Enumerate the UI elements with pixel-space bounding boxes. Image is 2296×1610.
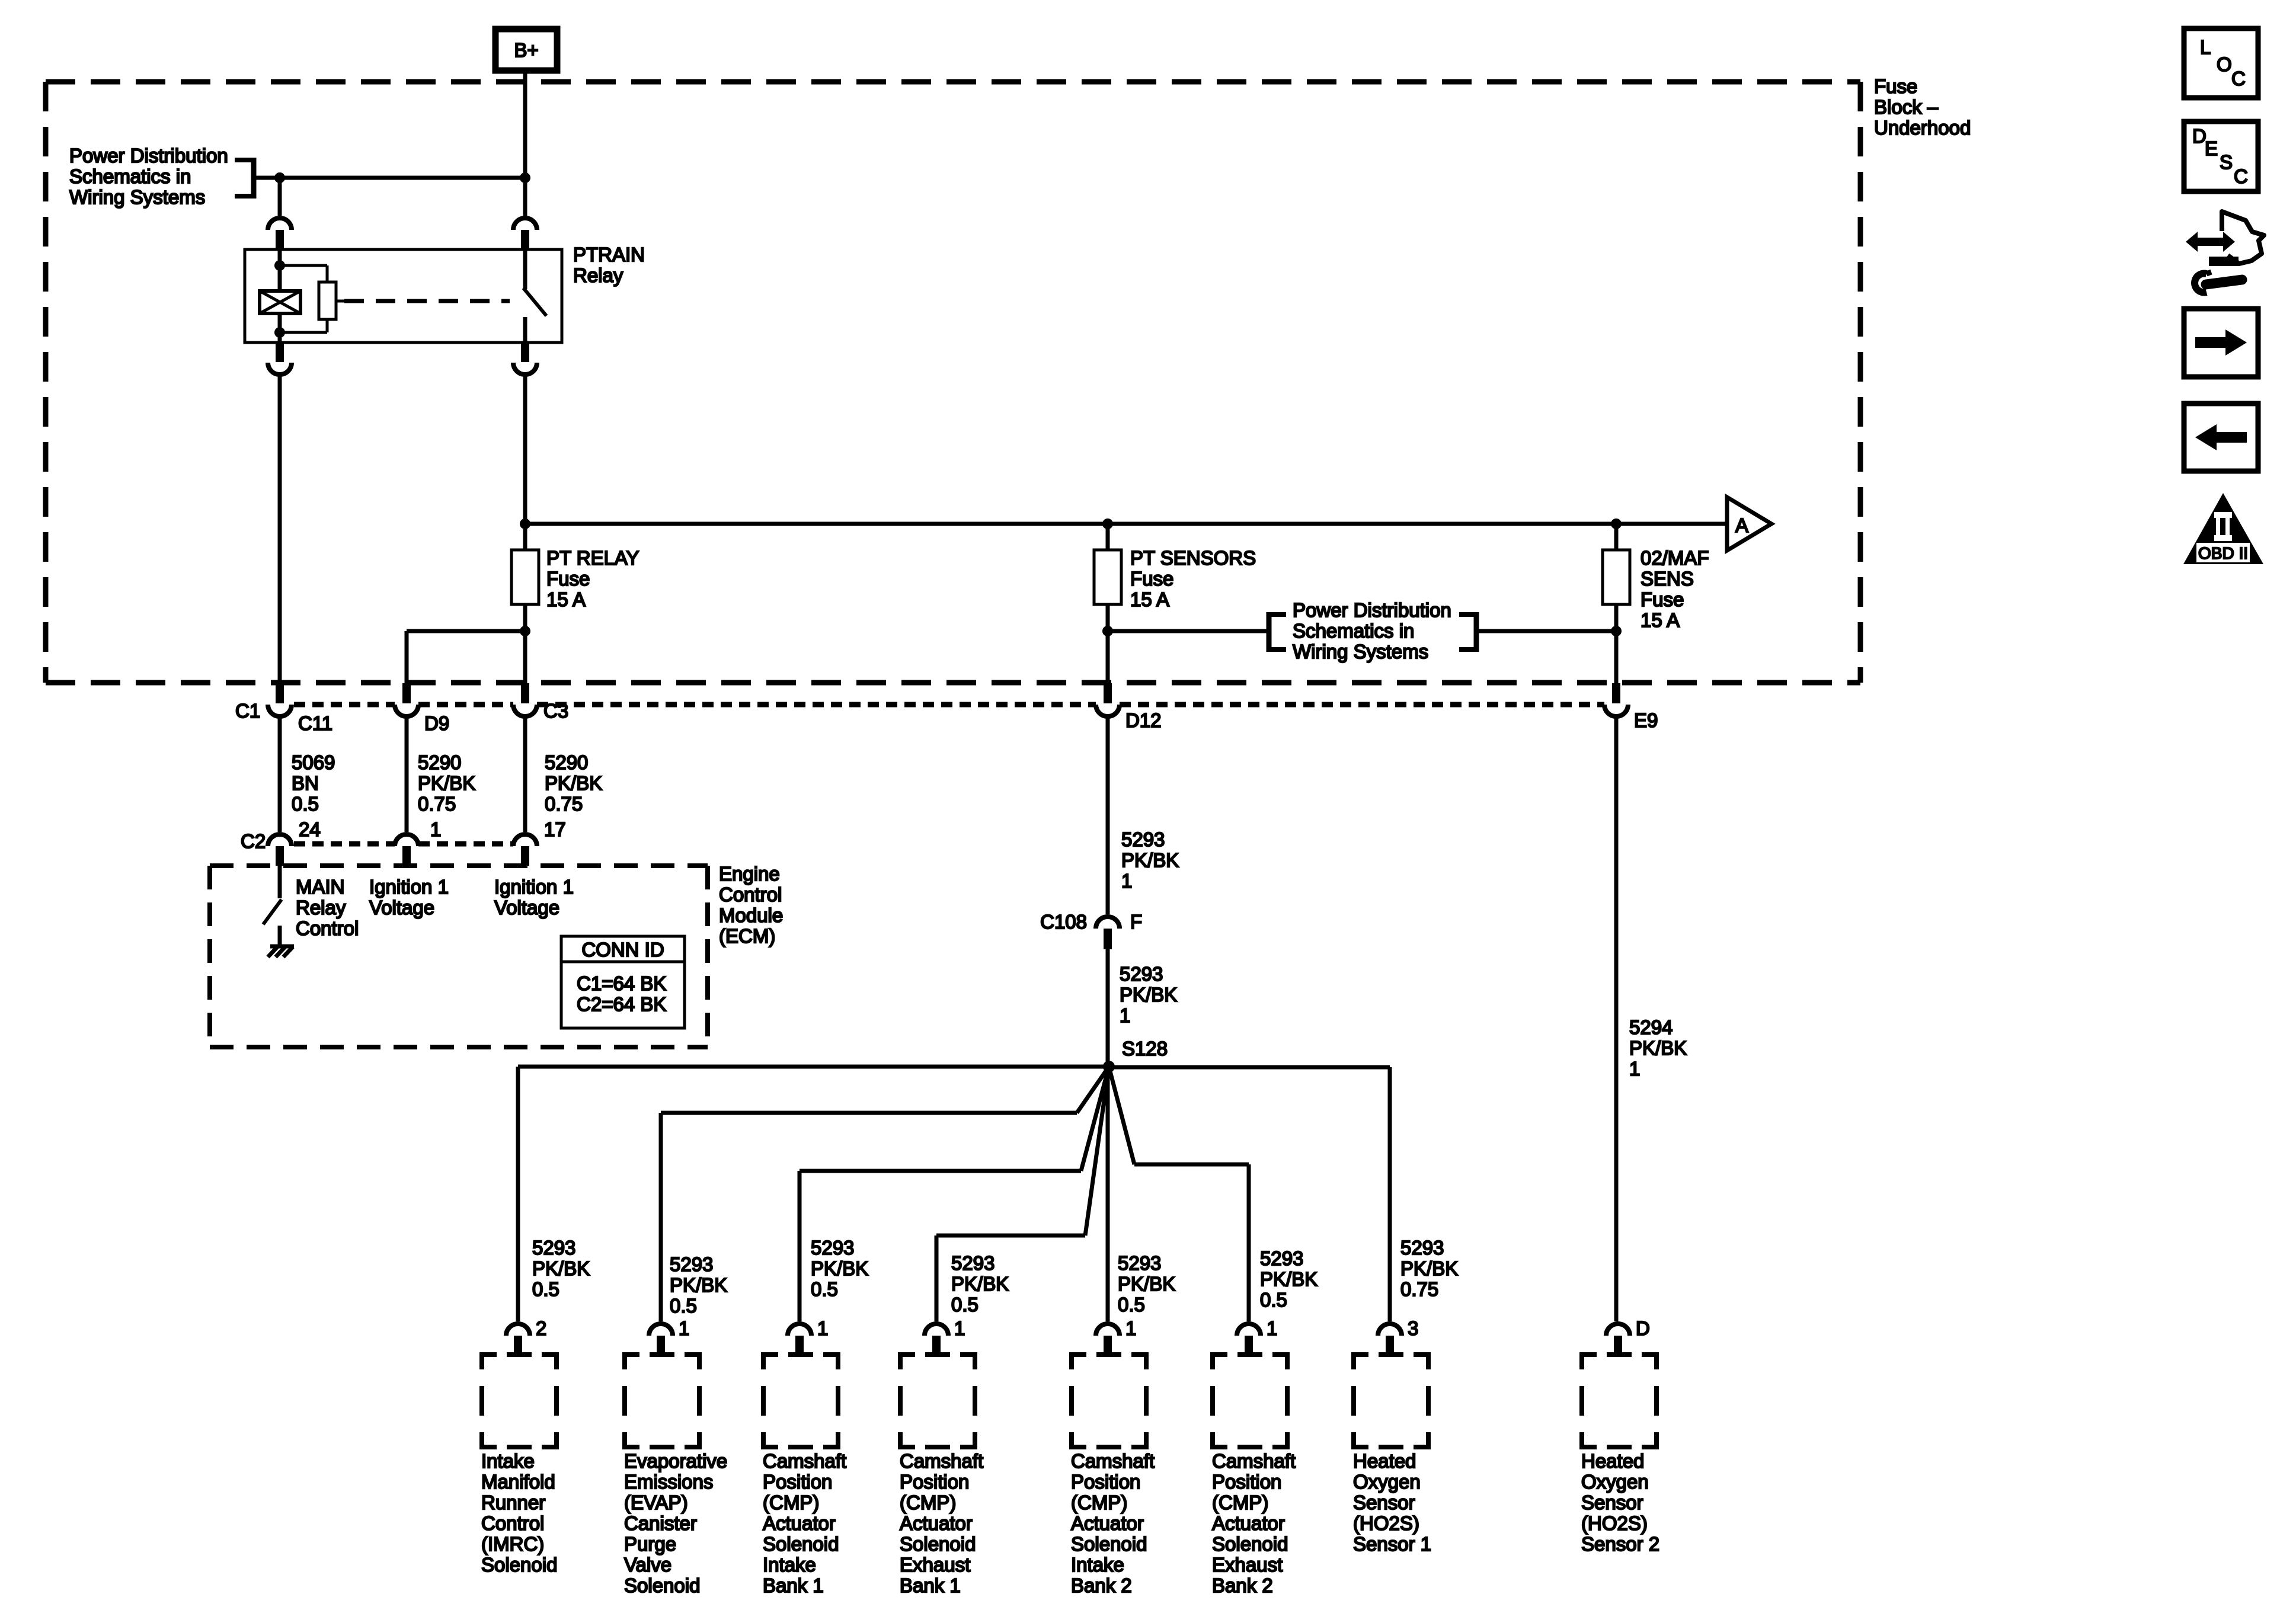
svg-text:PK/BK: PK/BK — [1121, 849, 1179, 871]
svg-text:Actuator: Actuator — [763, 1512, 836, 1534]
svg-text:MAIN: MAIN — [296, 876, 345, 898]
svg-text:Solenoid: Solenoid — [1212, 1533, 1288, 1555]
svg-text:Intake: Intake — [763, 1554, 816, 1576]
svg-text:0.5: 0.5 — [951, 1294, 978, 1315]
svg-text:PK/BK: PK/BK — [670, 1274, 727, 1296]
svg-text:PK/BK: PK/BK — [532, 1257, 590, 1279]
svg-text:0.5: 0.5 — [292, 793, 319, 815]
svg-text:PK/BK: PK/BK — [1118, 1273, 1175, 1295]
svg-text:5293: 5293 — [1260, 1247, 1303, 1269]
svg-text:1: 1 — [679, 1317, 689, 1339]
svg-text:(CMP): (CMP) — [900, 1491, 956, 1513]
svg-text:1: 1 — [817, 1317, 828, 1339]
svg-text:Evaporative: Evaporative — [624, 1450, 727, 1472]
svg-text:D12: D12 — [1125, 709, 1162, 731]
svg-text:PK/BK: PK/BK — [1260, 1268, 1318, 1290]
svg-text:CONN ID: CONN ID — [581, 939, 664, 961]
svg-text:Camshaft: Camshaft — [763, 1450, 846, 1472]
svg-text:5293: 5293 — [811, 1237, 854, 1259]
svg-text:5293: 5293 — [532, 1237, 575, 1259]
svg-text:PT SENSORS: PT SENSORS — [1130, 547, 1256, 569]
svg-text:Purge: Purge — [624, 1533, 676, 1555]
svg-text:0.75: 0.75 — [418, 793, 456, 815]
svg-text:02/MAF: 02/MAF — [1641, 547, 1709, 569]
svg-text:Ignition 1: Ignition 1 — [369, 876, 449, 898]
svg-text:Camshaft: Camshaft — [900, 1450, 983, 1472]
svg-text:PTRAIN: PTRAIN — [573, 244, 645, 265]
svg-text:Manifold: Manifold — [481, 1471, 555, 1493]
svg-text:3: 3 — [1408, 1317, 1418, 1339]
svg-text:Control: Control — [481, 1512, 544, 1534]
svg-text:5293: 5293 — [1120, 963, 1163, 985]
svg-text:E: E — [2205, 137, 2218, 159]
svg-text:C11: C11 — [298, 712, 332, 734]
svg-text:Bank 1: Bank 1 — [763, 1574, 824, 1596]
svg-text:Heated: Heated — [1353, 1450, 1416, 1472]
svg-text:5293: 5293 — [1400, 1237, 1444, 1259]
svg-text:PK/BK: PK/BK — [418, 772, 475, 794]
svg-text:Sensor 1: Sensor 1 — [1353, 1533, 1431, 1555]
svg-text:(CMP): (CMP) — [763, 1491, 819, 1513]
svg-text:Schematics in: Schematics in — [1293, 620, 1414, 642]
svg-text:(HO2S): (HO2S) — [1581, 1512, 1648, 1534]
svg-text:Solenoid: Solenoid — [624, 1574, 700, 1596]
svg-text:0.75: 0.75 — [545, 793, 583, 815]
svg-text:C2=64 BK: C2=64 BK — [577, 993, 666, 1015]
svg-text:Solenoid: Solenoid — [900, 1533, 976, 1555]
svg-text:Module: Module — [719, 904, 783, 926]
svg-text:C1=64 BK: C1=64 BK — [577, 972, 666, 994]
svg-text:1: 1 — [430, 818, 441, 840]
svg-text:Power Distribution: Power Distribution — [1293, 599, 1451, 621]
svg-text:Voltage: Voltage — [494, 897, 559, 918]
svg-text:1: 1 — [1120, 1004, 1130, 1026]
svg-text:Oxygen: Oxygen — [1581, 1471, 1649, 1493]
svg-text:15 A: 15 A — [1641, 609, 1680, 631]
svg-text:S: S — [2220, 151, 2233, 173]
svg-text:Relay: Relay — [573, 264, 623, 286]
svg-text:Fuse: Fuse — [1130, 568, 1173, 590]
svg-text:Solenoid: Solenoid — [763, 1533, 839, 1555]
svg-text:Fuse: Fuse — [1641, 588, 1684, 610]
svg-text:2: 2 — [536, 1317, 546, 1339]
svg-text:Camshaft: Camshaft — [1071, 1450, 1155, 1472]
svg-text:PK/BK: PK/BK — [1400, 1257, 1458, 1279]
svg-text:Control: Control — [719, 884, 782, 905]
svg-text:5290: 5290 — [545, 751, 588, 773]
svg-text:Ignition 1: Ignition 1 — [494, 876, 574, 898]
svg-text:D: D — [1636, 1317, 1650, 1339]
svg-text:OBD II: OBD II — [2198, 544, 2248, 562]
svg-text:Actuator: Actuator — [1212, 1512, 1285, 1534]
svg-text:O: O — [2217, 53, 2232, 75]
svg-text:Camshaft: Camshaft — [1212, 1450, 1296, 1472]
svg-text:1: 1 — [1125, 1317, 1136, 1339]
svg-text:17: 17 — [544, 818, 566, 840]
svg-text:Underhood: Underhood — [1874, 117, 1971, 139]
svg-text:Intake: Intake — [481, 1450, 535, 1472]
svg-text:Position: Position — [1212, 1471, 1281, 1493]
svg-text:Control: Control — [296, 917, 359, 939]
svg-text:0.5: 0.5 — [532, 1278, 559, 1300]
svg-text:0.5: 0.5 — [1260, 1289, 1287, 1311]
svg-text:Bank 2: Bank 2 — [1071, 1574, 1132, 1596]
svg-text:Emissions: Emissions — [624, 1471, 713, 1493]
svg-text:Power Distribution: Power Distribution — [69, 145, 228, 167]
svg-text:BN: BN — [292, 772, 319, 794]
svg-text:(CMP): (CMP) — [1071, 1491, 1127, 1513]
svg-text:Schematics in: Schematics in — [69, 165, 191, 187]
svg-text:Sensor 2: Sensor 2 — [1581, 1533, 1659, 1555]
svg-text:(EVAP): (EVAP) — [624, 1491, 688, 1513]
svg-text:Block –: Block – — [1874, 96, 1939, 118]
svg-text:0.5: 0.5 — [811, 1278, 838, 1300]
svg-text:1: 1 — [1121, 870, 1132, 892]
svg-text:Intake: Intake — [1071, 1554, 1124, 1576]
svg-text:Oxygen: Oxygen — [1353, 1471, 1421, 1493]
svg-text:Solenoid: Solenoid — [1071, 1533, 1147, 1555]
svg-text:Exhaust: Exhaust — [900, 1554, 970, 1576]
svg-text:PK/BK: PK/BK — [811, 1257, 868, 1279]
svg-text:PK/BK: PK/BK — [545, 772, 602, 794]
svg-text:5293: 5293 — [951, 1252, 994, 1274]
svg-text:Actuator: Actuator — [900, 1512, 973, 1534]
svg-text:Position: Position — [1071, 1471, 1140, 1493]
svg-text:Heated: Heated — [1581, 1450, 1644, 1472]
svg-text:0.5: 0.5 — [1118, 1294, 1145, 1315]
svg-text:Fuse: Fuse — [546, 568, 590, 590]
svg-text:1: 1 — [1267, 1317, 1277, 1339]
svg-text:Wiring Systems: Wiring Systems — [69, 186, 205, 208]
svg-text:Position: Position — [900, 1471, 969, 1493]
svg-text:5069: 5069 — [292, 751, 335, 773]
svg-text:Sensor: Sensor — [1353, 1491, 1415, 1513]
svg-text:(IMRC): (IMRC) — [481, 1533, 544, 1555]
svg-text:F: F — [1130, 911, 1142, 933]
svg-text:Voltage: Voltage — [369, 897, 434, 918]
svg-text:PK/BK: PK/BK — [1629, 1037, 1687, 1059]
svg-text:Actuator: Actuator — [1071, 1512, 1144, 1534]
svg-text:Runner: Runner — [481, 1491, 545, 1513]
svg-text:(CMP): (CMP) — [1212, 1491, 1268, 1513]
svg-text:PK/BK: PK/BK — [1120, 984, 1177, 1006]
svg-text:L: L — [2200, 36, 2211, 58]
svg-text:15 A: 15 A — [1130, 588, 1169, 610]
svg-text:C: C — [2231, 68, 2246, 89]
svg-text:(HO2S): (HO2S) — [1353, 1512, 1419, 1534]
svg-text:15 A: 15 A — [546, 588, 586, 610]
svg-text:C1: C1 — [235, 700, 260, 722]
svg-text:Bank 2: Bank 2 — [1212, 1574, 1273, 1596]
svg-text:Wiring Systems: Wiring Systems — [1293, 641, 1428, 662]
svg-text:C108: C108 — [1040, 911, 1087, 933]
svg-text:C2: C2 — [241, 830, 266, 852]
svg-text:0.75: 0.75 — [1400, 1278, 1438, 1300]
svg-text:A: A — [1735, 514, 1748, 536]
svg-text:S128: S128 — [1122, 1038, 1168, 1060]
svg-text:5294: 5294 — [1629, 1016, 1673, 1038]
svg-text:5293: 5293 — [670, 1253, 713, 1275]
svg-text:Canister: Canister — [624, 1512, 697, 1534]
svg-text:C3: C3 — [543, 700, 568, 722]
svg-text:5293: 5293 — [1118, 1252, 1161, 1274]
svg-text:1: 1 — [954, 1317, 965, 1339]
svg-text:SENS: SENS — [1641, 568, 1694, 590]
svg-text:Bank 1: Bank 1 — [900, 1574, 961, 1596]
svg-text:B+: B+ — [514, 39, 538, 61]
svg-text:Exhaust: Exhaust — [1212, 1554, 1283, 1576]
svg-text:Solenoid: Solenoid — [481, 1554, 557, 1576]
svg-text:(ECM): (ECM) — [719, 925, 775, 947]
svg-text:5290: 5290 — [418, 751, 461, 773]
svg-text:5293: 5293 — [1121, 828, 1165, 850]
svg-text:Sensor: Sensor — [1581, 1491, 1643, 1513]
svg-text:C: C — [2234, 165, 2248, 187]
svg-text:Relay: Relay — [296, 897, 346, 918]
svg-text:Engine: Engine — [719, 863, 780, 885]
svg-text:E9: E9 — [1634, 709, 1658, 731]
svg-text:0.5: 0.5 — [670, 1295, 697, 1317]
svg-text:Fuse: Fuse — [1874, 75, 1917, 97]
svg-text:PK/BK: PK/BK — [951, 1273, 1009, 1295]
svg-text:D9: D9 — [424, 712, 449, 734]
svg-text:PT RELAY: PT RELAY — [546, 547, 639, 569]
svg-text:Position: Position — [763, 1471, 832, 1493]
svg-text:1: 1 — [1629, 1058, 1640, 1080]
svg-text:24: 24 — [299, 818, 321, 840]
svg-text:Valve: Valve — [624, 1554, 671, 1576]
